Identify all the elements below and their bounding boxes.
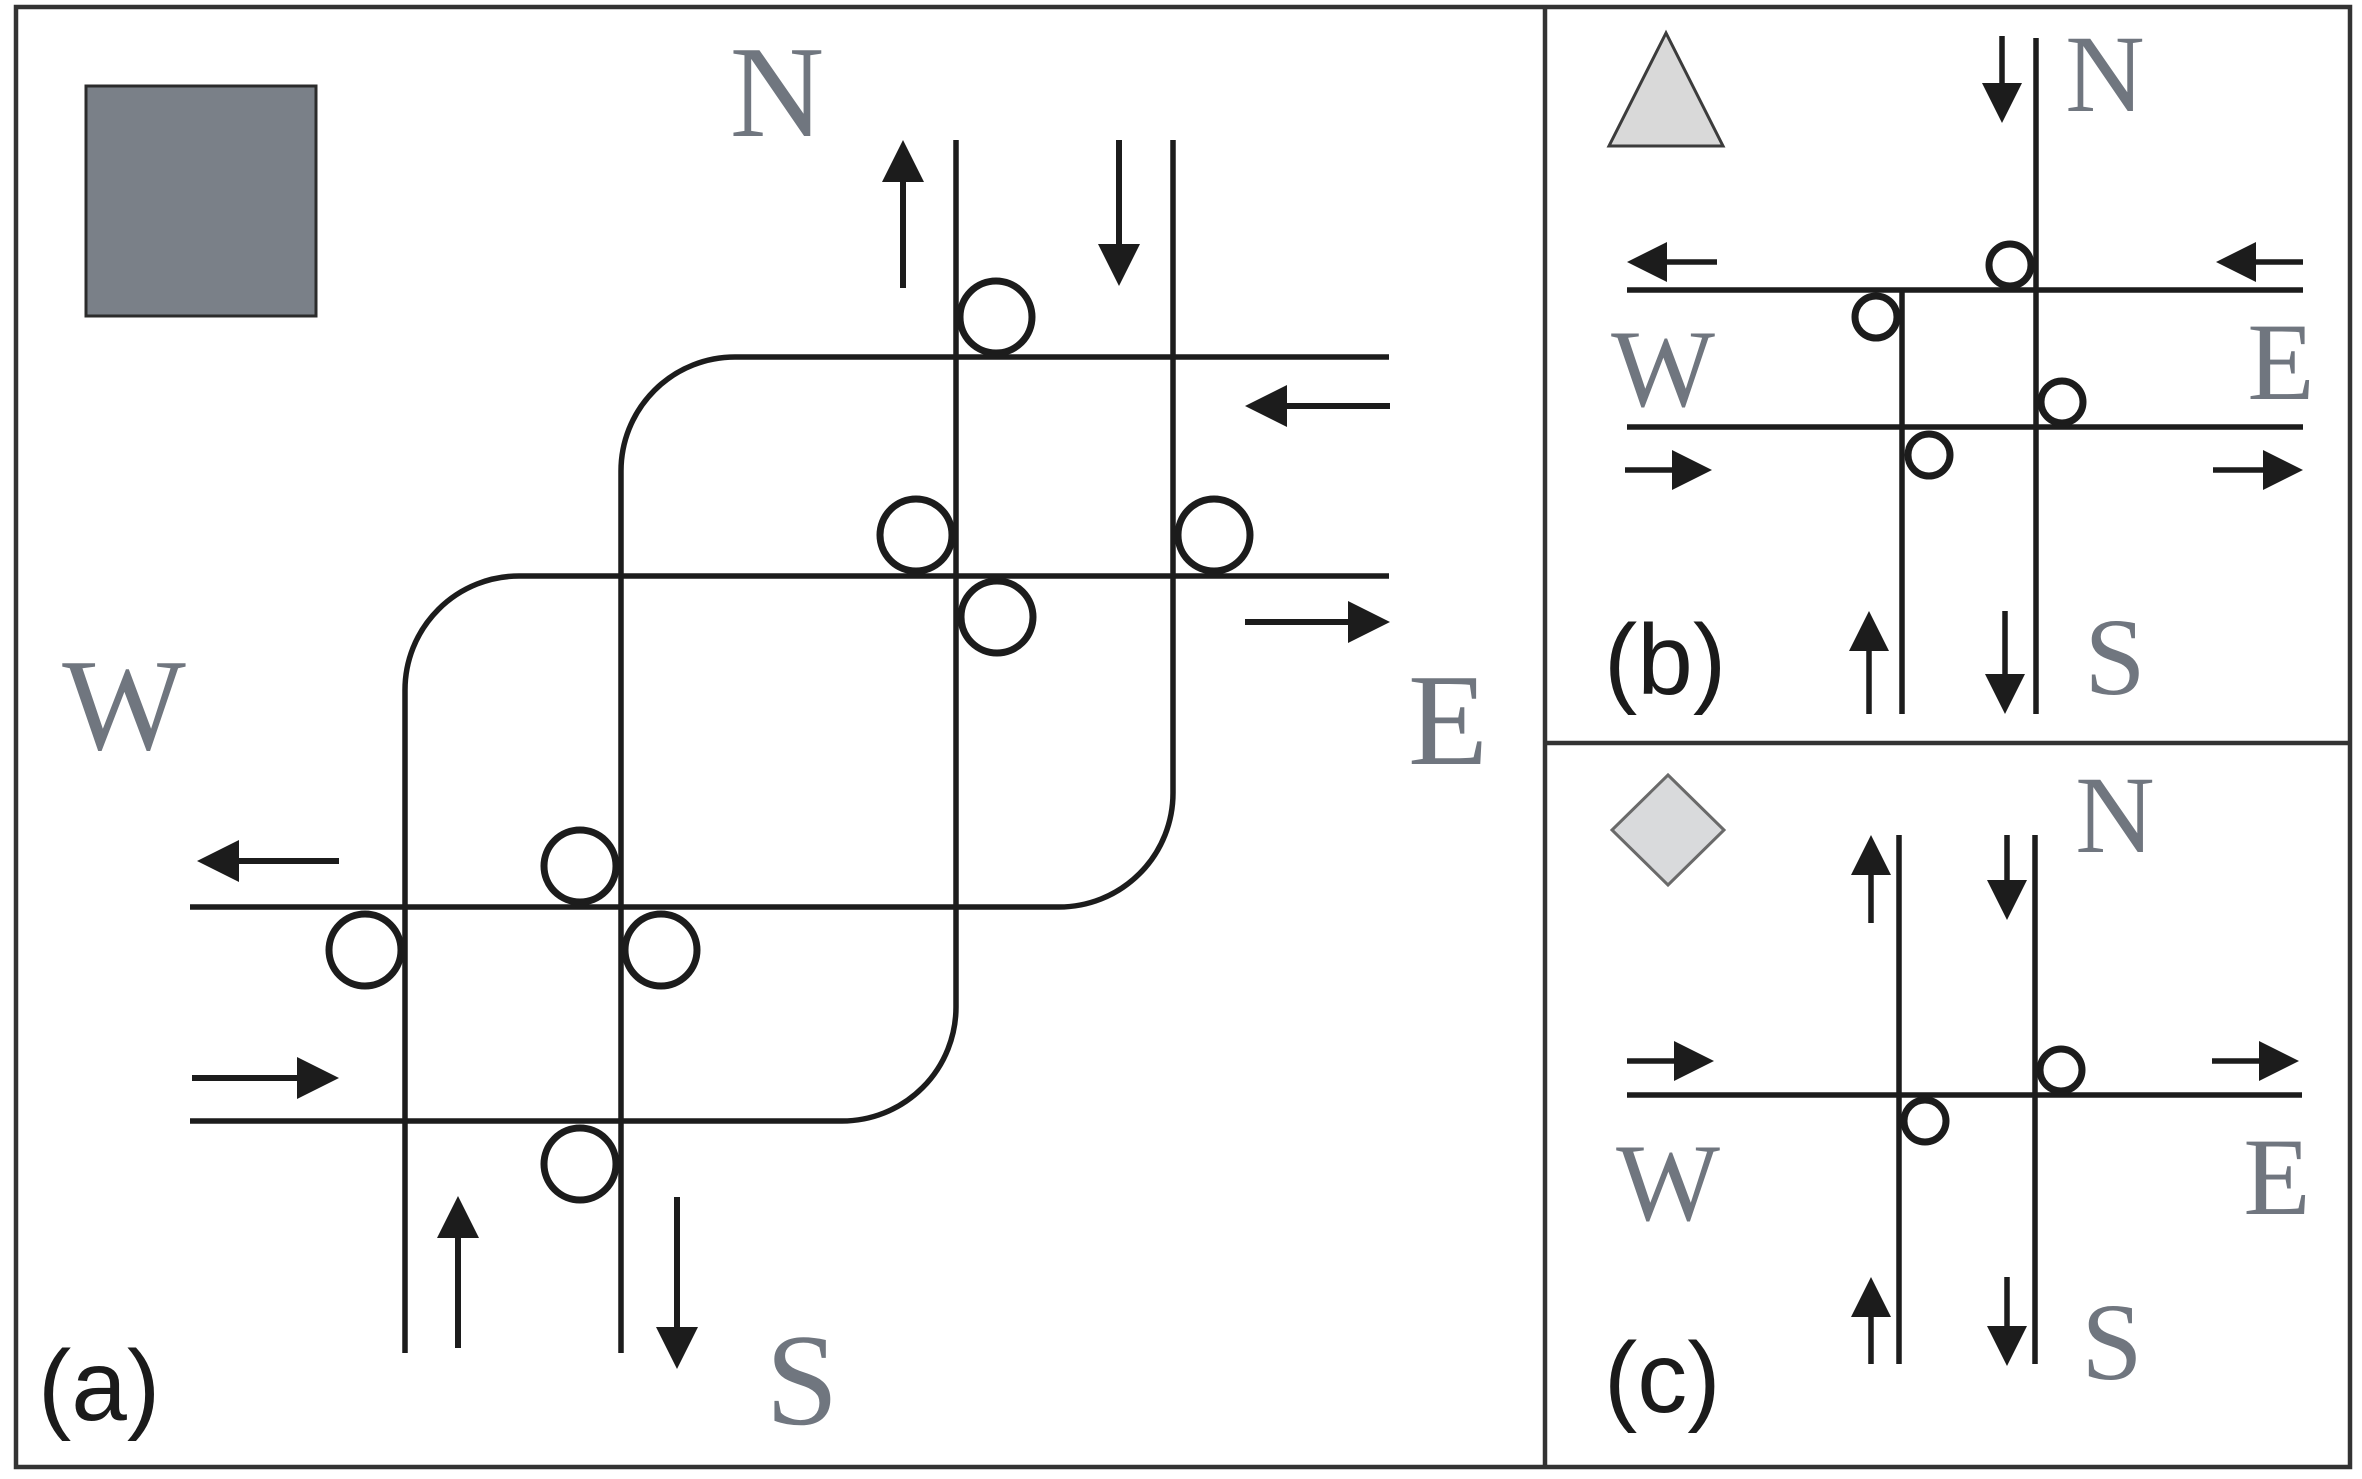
legend square (panel a)	[86, 86, 316, 316]
svg-text:N: N	[730, 20, 825, 165]
arrow down c N inbound	[1987, 835, 2027, 920]
svg-text:(a): (a)	[38, 1330, 160, 1442]
arrow right c W input	[1627, 1041, 1714, 1081]
waveguide b-h1 (westbound)	[1627, 287, 2303, 293]
svg-text:S: S	[2084, 596, 2145, 718]
microring Rb1	[1989, 244, 2031, 286]
microring Rc1	[2040, 1049, 2082, 1091]
arrow left b E input	[2216, 242, 2303, 282]
microring R6 (SW crossing, below h1 left of v1)	[329, 914, 401, 986]
arrow left W output	[197, 840, 339, 882]
arrow down N input	[1098, 140, 1140, 286]
microring R1 (NE crossing, above h1 right of v1)	[960, 281, 1032, 353]
waveguide c-v2 (right vertical)	[2032, 835, 2038, 1364]
svg-text:W: W	[1616, 1122, 1720, 1244]
svg-text:(b): (b)	[1604, 604, 1726, 716]
svg-text:(c): (c)	[1604, 1322, 1721, 1434]
svg-text:E: E	[2247, 301, 2314, 423]
arrow down c S	[1987, 1277, 2027, 1366]
arrow right W input	[192, 1057, 339, 1099]
panel divider vertical between (a) and (b)/(c)	[1543, 7, 1548, 1467]
microring R2 (NE crossing, above h2 left of v1)	[880, 499, 952, 571]
microring R3 (NE crossing, above h2 right of v2)	[1178, 499, 1250, 571]
waveguide A: N input to W output	[190, 140, 1173, 907]
svg-text:E: E	[2243, 1116, 2310, 1238]
arrow up N output	[882, 140, 924, 288]
waveguide c-v1 (left vertical)	[1896, 835, 1902, 1364]
waveguide c-h (eastbound)	[1627, 1092, 2302, 1098]
svg-text:W: W	[1611, 308, 1715, 430]
arrow right b W input	[1625, 450, 1712, 490]
arrow down S output	[656, 1197, 698, 1369]
arrow up c S	[1851, 1277, 1891, 1364]
waveguide b-v2 (right vertical, southbound)	[2033, 38, 2039, 714]
waveguide b-h2 (eastbound)	[1627, 424, 2303, 430]
panel divider horizontal between (b) and (c)	[1545, 741, 2350, 746]
legend triangle (panel b)	[1609, 33, 1723, 146]
waveguide B: W input to N output	[190, 140, 956, 1121]
microring R7 (SW crossing, below h1 right of v2)	[625, 914, 697, 986]
svg-text:W: W	[62, 633, 186, 778]
microring Rb4	[1908, 434, 1950, 476]
svg-text:S: S	[2081, 1281, 2142, 1403]
arrow right E output	[1245, 601, 1390, 643]
legend diamond (panel c)	[1612, 775, 1724, 885]
svg-text:N: N	[2075, 754, 2154, 876]
arrow right c E output	[2212, 1041, 2299, 1081]
svg-text:E: E	[1408, 648, 1488, 793]
waveguide b-v1 (left vertical, to N)	[1899, 288, 1905, 714]
waveguide C: E input to S output	[621, 357, 1389, 1353]
arrow up S input	[437, 1196, 479, 1348]
microring R4 (NE crossing, below h2 right of v1)	[961, 581, 1033, 653]
microring Rc2	[1904, 1100, 1946, 1142]
waveguide D: S input to E output	[405, 576, 1389, 1353]
microring R5 (SW crossing, above h1 left of v2)	[544, 830, 616, 902]
microring Rb3	[2041, 381, 2083, 423]
microring R8 (SW crossing, below h2 left of v2)	[544, 1128, 616, 1200]
arrow up c N outbound	[1851, 835, 1891, 923]
arrow right b E output	[2213, 450, 2303, 490]
svg-text:N: N	[2065, 13, 2144, 135]
svg-text:S: S	[766, 1308, 839, 1453]
arrow left b W output	[1627, 242, 1717, 282]
arrow down b S output	[1985, 611, 2025, 714]
microring Rb2	[1855, 296, 1897, 338]
arrow down b N input	[1982, 36, 2022, 123]
arrow left E input	[1245, 385, 1390, 427]
arrow up b S input	[1849, 611, 1889, 714]
